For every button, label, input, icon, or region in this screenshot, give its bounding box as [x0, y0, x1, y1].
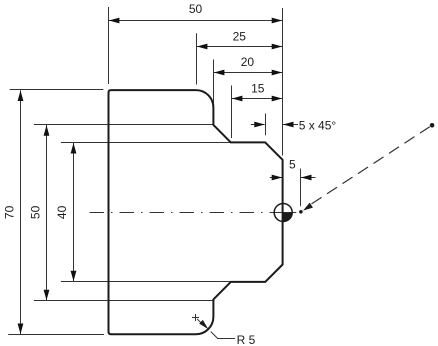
extension line 70 top (y=89.6) — [10, 89, 104, 91]
centerline segment through circle — [270, 212, 296, 214]
extension line right common (x=282.6) — [282, 8, 284, 156]
25 right arrow — [272, 44, 283, 50]
R5 leader segment B — [211, 332, 218, 339]
extension line 50v bottom (y=300) — [34, 300, 215, 302]
dimension line 50 top — [109, 20, 283, 22]
dim 5 right: extension line (x=301) — [300, 169, 302, 207]
svg-text:5: 5 — [289, 158, 296, 172]
extension line 50v top (y=124.9) — [34, 124, 214, 126]
extension line left of 50 top dim (part left edge, x=108.5) — [108, 7, 110, 84]
dim5 arrow pointing left — [301, 175, 312, 181]
svg-text:15: 15 — [251, 81, 265, 95]
dashed leader end dot — [430, 123, 435, 128]
50v top arrow — [44, 125, 50, 136]
dimension line 20 — [214, 72, 283, 74]
extension line 40v bottom (y=281.7) — [61, 281, 231, 283]
dimension line 40 vertical — [73, 143, 75, 281]
dim 5 right: arrow tail left — [270, 177, 283, 179]
chamfer arrow pointing right at tick — [254, 122, 264, 128]
R5 leader segment A — [197, 319, 201, 323]
dashed leader line — [312, 127, 430, 204]
dimension line 15 — [232, 98, 283, 100]
chamfer arrow tail left — [251, 124, 265, 126]
svg-text:25: 25 — [233, 29, 247, 43]
20 right arrow — [272, 70, 283, 76]
svg-text:70: 70 — [3, 205, 17, 219]
15 right arrow — [272, 96, 283, 102]
arrowheads — [18, 18, 312, 334]
15 left arrow — [232, 96, 243, 102]
70 bottom arrow — [18, 324, 24, 335]
extension line 70 bottom (y=334.2) — [8, 334, 104, 336]
R5 leader arrowhead — [199, 320, 208, 329]
extension line for 20 dim (x=213.4) — [213, 60, 215, 106]
dashed leader arrowhead at dot — [303, 203, 313, 211]
dimension line 50 vertical — [46, 125, 48, 300]
dim 5 right: arrow tail right — [301, 177, 316, 179]
50 top right arrow — [272, 18, 283, 24]
40v top arrow — [71, 143, 77, 154]
origin circle with filled quadrant — [274, 204, 292, 222]
svg-text:20: 20 — [241, 55, 255, 69]
svg-text:50: 50 — [29, 205, 43, 219]
svg-text:40: 40 — [55, 205, 69, 219]
dimension line 70 vertical — [20, 90, 22, 334]
50v bottom arrow — [44, 290, 50, 301]
chamfer arrow tail right — [283, 124, 299, 126]
50 top left arrow — [109, 18, 120, 24]
extension line for 15 dim (x=230.8) — [231, 86, 233, 139]
40v bottom arrow — [71, 271, 77, 282]
origin point dot — [299, 210, 303, 214]
svg-text:5 x 45°: 5 x 45° — [299, 118, 337, 132]
20 left arrow — [214, 70, 225, 76]
extension line 40v top (y=142.6) — [61, 142, 231, 144]
25 left arrow — [197, 44, 208, 50]
R5 leader horizontal — [217, 338, 235, 340]
chamfer tick line (x=265.5) — [265, 114, 267, 136]
extension line for 25 dim (x=196) — [196, 33, 198, 84]
70 top arrow — [18, 91, 24, 102]
centerline dash-dot — [90, 212, 273, 214]
dimension line 25 — [197, 46, 283, 48]
dim5 arrow pointing right — [272, 175, 283, 181]
chamfer arrow pointing left at ext — [283, 122, 294, 128]
svg-text:50: 50 — [189, 2, 203, 16]
svg-text:R 5: R 5 — [237, 333, 256, 346]
part outline — [109, 90, 283, 334]
R5 center mark plus — [192, 314, 235, 339]
